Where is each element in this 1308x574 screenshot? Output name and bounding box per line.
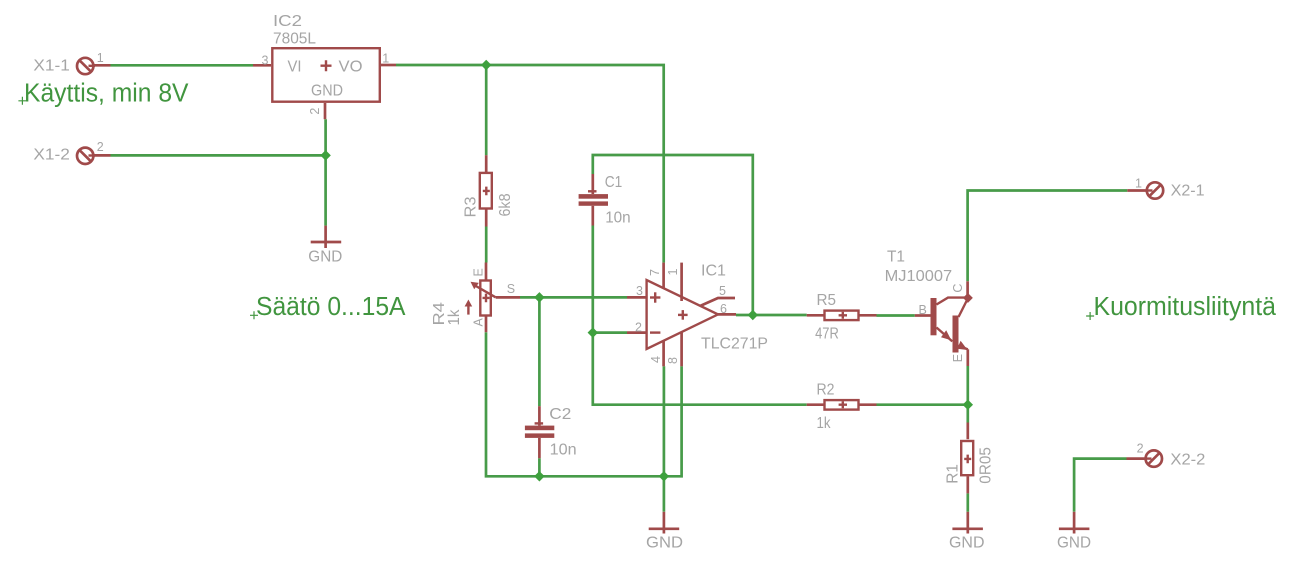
connector X1-2 xyxy=(77,148,111,164)
ground symbol under op-amp xyxy=(649,512,680,534)
svg-text:Käyttis, min 8V: Käyttis, min 8V xyxy=(24,79,189,107)
wire R3 bottom to R4 E xyxy=(485,227,488,263)
wire R2 right to emitter junction xyxy=(877,403,968,406)
origin cross Kayttis xyxy=(18,97,26,105)
junction node at rail/R3 xyxy=(481,60,491,70)
wire C1 bottom down and to R2 left xyxy=(593,226,807,405)
junction node R2/emitter xyxy=(963,399,973,409)
svg-text:C1: C1 xyxy=(605,174,623,191)
svg-text:X2-2: X2-2 xyxy=(1170,452,1205,469)
wire X1-2 to GND junction xyxy=(111,154,326,157)
svg-text:X1-1: X1-1 xyxy=(33,58,70,75)
svg-text:6: 6 xyxy=(720,302,727,316)
svg-text:2: 2 xyxy=(1137,442,1144,456)
capacitor C1 10n xyxy=(579,174,608,226)
junction node X1-2/IC2 GND xyxy=(320,150,330,160)
connector X2-1 xyxy=(1127,182,1163,198)
ground symbol under IC2 xyxy=(311,226,342,248)
connector X1-1 xyxy=(77,58,111,74)
svg-text:1k: 1k xyxy=(446,309,463,326)
resistor R3 6k8 xyxy=(480,155,492,226)
junction node pin2/C1 xyxy=(588,327,598,337)
svg-text:IC1: IC1 xyxy=(701,263,726,280)
svg-text:10n: 10n xyxy=(605,210,631,227)
svg-text:Kuormitusliityntä: Kuormitusliityntä xyxy=(1094,293,1277,321)
svg-text:5: 5 xyxy=(719,284,726,298)
svg-text:S: S xyxy=(507,282,515,296)
svg-text:10n: 10n xyxy=(550,442,577,459)
wire X1-1 to IC2 VI xyxy=(111,64,254,67)
wire IC2 GND pin down xyxy=(324,119,327,225)
junction node S/C2 xyxy=(534,292,544,302)
capacitor C2 10n xyxy=(525,406,554,458)
svg-text:GND: GND xyxy=(1057,534,1091,551)
junction node pin4-GND/bottom rail xyxy=(659,471,669,481)
junction node C2/bottom rail xyxy=(534,471,544,481)
wire X2-2 to GND xyxy=(1074,459,1126,512)
svg-text:2: 2 xyxy=(635,321,642,335)
connector X2-2 xyxy=(1127,450,1163,466)
potentiometer R4 1k xyxy=(465,263,520,333)
svg-text:1: 1 xyxy=(382,52,389,66)
svg-text:1k: 1k xyxy=(817,415,832,432)
wire R1 bottom to GND xyxy=(966,493,969,511)
svg-text:7805L: 7805L xyxy=(273,30,316,47)
svg-text:1: 1 xyxy=(97,51,104,65)
svg-text:VO: VO xyxy=(339,59,363,76)
wire T1 collector up to X2-1 xyxy=(968,191,1128,282)
svg-text:GND: GND xyxy=(949,534,985,551)
ground symbol under R1 xyxy=(952,512,983,534)
svg-text:E: E xyxy=(951,354,965,362)
ground symbol under X2-2 xyxy=(1059,512,1090,534)
wire C2 bottom to rail xyxy=(538,458,541,476)
svg-text:X1-2: X1-2 xyxy=(33,147,70,164)
IC2 7805L regulator xyxy=(253,48,396,119)
wire R5 to T1 base xyxy=(877,314,915,317)
junction node output/feedback xyxy=(748,310,758,320)
resistor R1 0R05 xyxy=(961,423,973,494)
svg-text:8: 8 xyxy=(666,357,680,364)
svg-text:C2: C2 xyxy=(549,406,571,423)
svg-text:3: 3 xyxy=(262,53,269,67)
svg-text:GND: GND xyxy=(646,534,683,551)
svg-text:1: 1 xyxy=(666,269,680,276)
resistor R2 1k xyxy=(807,400,877,410)
svg-text:2: 2 xyxy=(97,140,104,154)
svg-text:0R05: 0R05 xyxy=(978,447,995,484)
wire op-amp pin4 to GND xyxy=(663,366,666,512)
svg-text:TLC271P: TLC271P xyxy=(701,336,768,353)
svg-text:T1: T1 xyxy=(887,249,905,266)
svg-text:1: 1 xyxy=(1135,176,1142,190)
svg-text:3: 3 xyxy=(636,284,643,298)
svg-text:B: B xyxy=(919,303,927,317)
svg-text:4: 4 xyxy=(649,356,663,363)
wire R4 A to bottom rail to pin8 xyxy=(486,332,682,476)
svg-text:7: 7 xyxy=(648,269,662,276)
wire pin2 to C1 junction xyxy=(593,331,627,334)
svg-text:VI: VI xyxy=(288,59,302,76)
resistor R5 47R xyxy=(807,311,877,321)
wire rail to R3 top xyxy=(485,65,488,155)
wire S junction down to C2 top xyxy=(538,297,541,406)
svg-text:R5: R5 xyxy=(817,292,837,309)
svg-text:6k8: 6k8 xyxy=(497,193,514,216)
svg-text:2: 2 xyxy=(308,108,322,115)
svg-text:MJ10007: MJ10007 xyxy=(885,268,953,285)
svg-text:A: A xyxy=(471,318,485,327)
svg-text:IC2: IC2 xyxy=(273,13,302,30)
svg-text:R2: R2 xyxy=(817,381,835,398)
wire op-amp out to R5 xyxy=(736,314,807,317)
transistor T1 MJ10007 darlington xyxy=(915,281,973,366)
svg-text:E: E xyxy=(471,268,485,276)
svg-text:C: C xyxy=(951,284,965,293)
wire T1 emitter down to R1 xyxy=(966,366,969,423)
svg-text:X2-1: X2-1 xyxy=(1171,183,1205,200)
wire VO rail to op-amp pin7 xyxy=(396,65,664,263)
svg-text:Säätö 0...15A: Säätö 0...15A xyxy=(256,293,406,321)
origin cross Kuormitusliitynta xyxy=(1086,312,1094,320)
op-amp IC1 TLC271P xyxy=(627,263,736,367)
svg-text:R3: R3 xyxy=(462,196,479,217)
svg-text:GND: GND xyxy=(311,82,343,99)
svg-text:GND: GND xyxy=(308,249,342,266)
svg-text:R1: R1 xyxy=(945,464,962,484)
wire R4 S to op-amp pin3 xyxy=(520,296,627,299)
svg-text:47R: 47R xyxy=(815,326,839,343)
wire C1 feedback rail to output junction xyxy=(593,155,753,315)
origin cross Saato xyxy=(250,311,258,319)
